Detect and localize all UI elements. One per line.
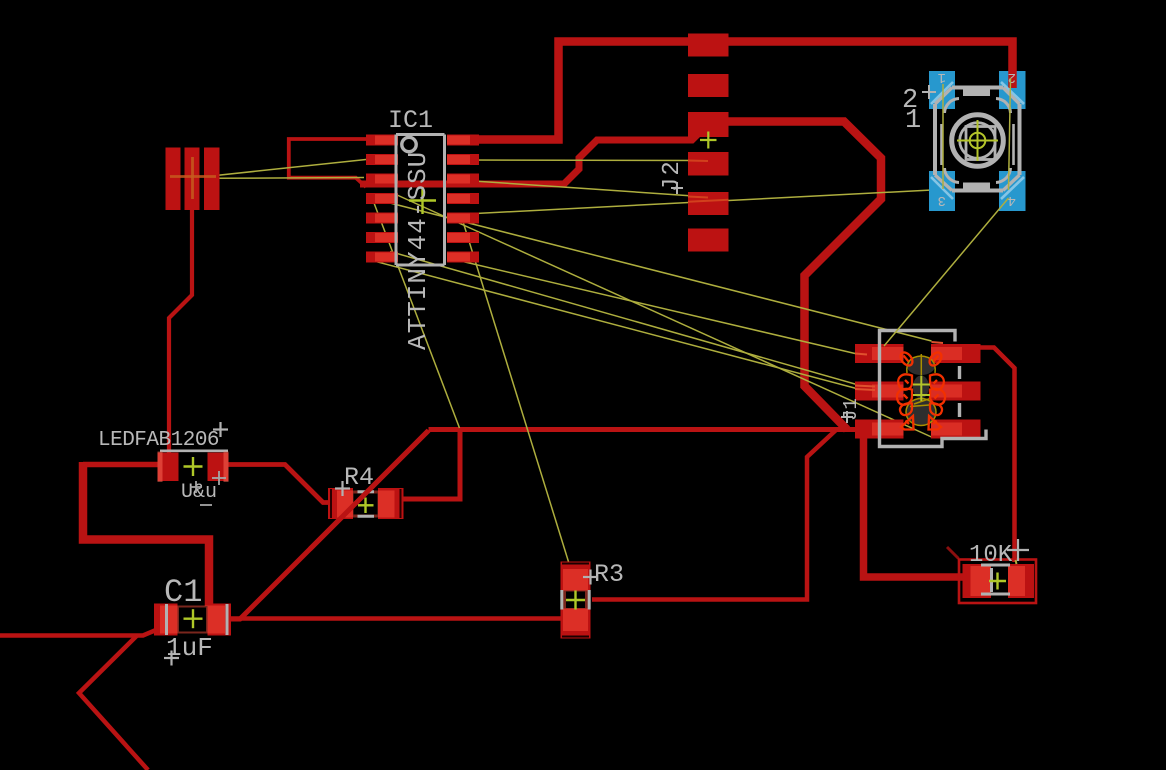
airwire IC1 pin4 to rail junction xyxy=(374,203,460,428)
J1 silkscreen outline xyxy=(880,331,987,447)
svg-text:U&u: U&u xyxy=(181,481,217,504)
svg-text:3: 3 xyxy=(938,192,946,208)
R3 name origin cross xyxy=(583,570,598,585)
R4 pads xyxy=(328,488,404,519)
S1 origin crosshair xyxy=(957,120,998,161)
airwire IC1 to J1 top-right pad xyxy=(390,203,932,341)
J1 ant graphic xyxy=(897,350,945,429)
airwire stub at 10K xyxy=(1016,560,1017,564)
airwire IC1 pin11 to S1 bottom-left pad xyxy=(466,190,942,215)
R4 body overlay xyxy=(337,491,395,518)
wire overlay into S1 top-right pad xyxy=(1008,71,1017,88)
connector 3-pad pads xyxy=(166,148,220,211)
wire V-shape from C1 trace to bottom edge xyxy=(79,636,148,770)
airwire S1 bottom-right pad to J1 top-left pad xyxy=(884,198,1009,346)
C1 body overlay xyxy=(160,606,225,634)
wire from J2 pad3 down to J1 area xyxy=(728,122,881,430)
IC1 pads xyxy=(366,135,479,263)
wire R3 bottom to C1 right pad xyxy=(228,616,565,621)
C1 value origin cross xyxy=(164,651,179,666)
wire rail branch down to R3 top xyxy=(592,430,836,600)
R4 name origin cross xyxy=(335,481,350,496)
airwire IC1 pin12 to J2 pad5 xyxy=(466,181,708,198)
wire LED left pad to C1 right pad top xyxy=(83,462,160,468)
R4 silk ticks xyxy=(358,492,375,516)
wire J1 top-right pad down to 10K right pad xyxy=(980,348,1015,563)
C1 origin cross xyxy=(184,609,203,628)
airwire IC1 to J1 top-left pad xyxy=(450,259,855,354)
svg-text:C1: C1 xyxy=(164,574,202,611)
svg-text:LEDFAB1206: LEDFAB1206 xyxy=(98,429,219,452)
S1 pad light marks xyxy=(931,82,1024,199)
airwire streaks over J2 pads xyxy=(688,161,729,202)
J2 pads xyxy=(688,34,729,252)
S1 silkscreen bottom tab xyxy=(963,183,990,192)
J2 name origin cross xyxy=(671,182,683,194)
wire IC1 pin1 loop xyxy=(289,139,367,187)
wire horizontal rail y=429 to J1 bottom-left pad xyxy=(429,427,863,432)
S1 silkscreen inner ring xyxy=(960,123,996,159)
wire 3-pad middle pad down to LED left pad xyxy=(169,205,192,458)
wire C1 left pad to left edge xyxy=(0,630,156,636)
R3 package lines xyxy=(562,564,589,637)
IC1 silkscreen xyxy=(396,135,445,266)
svg-text:2: 2 xyxy=(1008,69,1016,85)
IC1 pad bright overlays xyxy=(375,136,470,262)
airwire IC1 to R3 top pad xyxy=(462,219,572,574)
S1 name origin cross xyxy=(922,85,936,99)
airwire IC1 to J1 mid-right pad xyxy=(396,195,932,438)
R4 origin cross xyxy=(358,498,374,514)
wire segment over R4 xyxy=(310,431,429,550)
R3 origin cross xyxy=(566,591,585,610)
LED1 origin cross xyxy=(184,457,203,476)
10K value origin cross xyxy=(1007,539,1029,561)
airwire IC1 to J1 mid-left pad a xyxy=(390,252,859,386)
C1 silk lines xyxy=(167,604,228,635)
wire VCC top rail from IC1 pin14 to S1 xyxy=(458,42,1013,140)
10K center gap xyxy=(993,570,1006,589)
J1 pad bright overlays xyxy=(872,347,962,436)
airwire 3pad to IC1 pin3 xyxy=(211,177,364,180)
S1 silkscreen side ticks xyxy=(942,124,1014,165)
airwire IC1 pin13 to J2 pad4 xyxy=(466,159,708,162)
wire C1 right pad diagonal up to rail xyxy=(231,431,429,620)
S1 silkscreen corner arcs xyxy=(945,99,1011,183)
svg-text:IC1: IC1 xyxy=(388,106,433,135)
airwire S1 left pads vertical xyxy=(942,84,944,189)
S1 silkscreen outer ring xyxy=(952,115,1004,167)
10K keepout outline xyxy=(959,560,1036,604)
R3 center gap xyxy=(566,592,585,609)
10K silk bars xyxy=(981,565,1010,594)
svg-text:R3: R3 xyxy=(594,560,624,589)
wire rail drop to R4 right pad xyxy=(402,427,460,499)
C1 center gap xyxy=(179,608,206,632)
wire stub at 10K outline corner xyxy=(947,547,959,559)
svg-text:1: 1 xyxy=(905,106,921,136)
airwire S1 right pads vertical xyxy=(1009,78,1011,190)
airwire IC1 to J1 mid-left pad b xyxy=(372,261,857,389)
R4 center gap xyxy=(354,494,378,515)
S1 silkscreen outer square xyxy=(935,88,1020,191)
10K origin cross xyxy=(989,573,1006,590)
svg-text:10K: 10K xyxy=(969,542,1013,569)
J1 name origin cross xyxy=(841,411,853,423)
svg-text:ATTINY44-SSU: ATTINY44-SSU xyxy=(403,151,433,350)
R3 silk ticks xyxy=(562,590,589,610)
svg-text:1: 1 xyxy=(938,69,946,85)
connector origin cross xyxy=(170,157,216,199)
S1 blue pads xyxy=(929,71,1026,211)
LED1 name origin cross xyxy=(213,422,228,437)
wire LED right pad to R4 left pad xyxy=(227,465,332,503)
IC1 origin cross xyxy=(409,187,436,214)
R3 body overlay xyxy=(563,569,588,631)
svg-text:4: 4 xyxy=(1008,192,1016,208)
J2 origin cross xyxy=(700,132,717,149)
J1 pads xyxy=(855,344,981,439)
S1 silkscreen corner chamfers xyxy=(935,88,1020,191)
C1 pads xyxy=(154,604,231,636)
wire J1 bottom-left pad down to 10K left pad xyxy=(864,434,965,577)
wire from J2 pad3 to IC1 pin3 row xyxy=(360,132,700,184)
LED1 pads xyxy=(158,453,229,482)
S1 silkscreen top tab xyxy=(963,87,990,96)
10K resistor pads xyxy=(963,564,1035,598)
S1 silkscreen center square xyxy=(966,127,995,160)
airwire 3pad to IC1 pin2 xyxy=(211,160,366,177)
IC1 pin1 circle xyxy=(402,137,416,151)
R4 package lines xyxy=(331,489,401,518)
R3 pads (vertical) xyxy=(561,562,591,639)
LED1 silk top line xyxy=(160,449,228,452)
airwire streaks over J1 pads xyxy=(855,342,943,390)
